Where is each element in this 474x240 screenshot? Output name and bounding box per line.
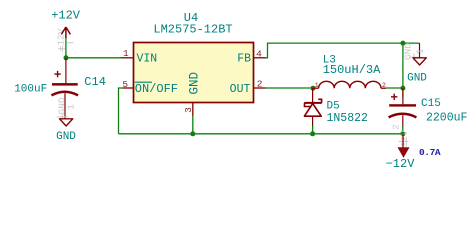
svg-text:0.7A: 0.7A bbox=[419, 147, 441, 158]
svg-text:−12V: −12V bbox=[386, 157, 416, 171]
IC U4 LM2575-12BT bbox=[134, 11, 254, 103]
wire +12V to VIN bbox=[66, 57, 122, 59]
wire pin3 down bbox=[192, 115, 194, 134]
svg-text:5: 5 bbox=[122, 79, 128, 90]
svg-text:C15: C15 bbox=[421, 98, 441, 110]
wire FB up and across top bbox=[266, 43, 420, 58]
node OUT/D5 bbox=[311, 86, 316, 91]
svg-text:3: 3 bbox=[183, 107, 194, 113]
power flag +12V bbox=[51, 9, 81, 58]
svg-text:VIN: VIN bbox=[137, 53, 158, 66]
svg-text:4: 4 bbox=[256, 48, 262, 59]
svg-text:GND: GND bbox=[56, 131, 76, 143]
svg-text:GND: GND bbox=[188, 72, 202, 95]
node top right bbox=[400, 41, 405, 46]
svg-text:1: 1 bbox=[415, 48, 426, 54]
svg-text:+12V: +12V bbox=[56, 28, 67, 51]
node D5/rail bbox=[310, 131, 315, 136]
node pin3/rail bbox=[190, 131, 195, 136]
svg-text:ON/OFF: ON/OFF bbox=[135, 82, 178, 96]
wire L3 to C15 bbox=[386, 87, 403, 89]
wire right vertical top bbox=[402, 43, 404, 97]
svg-text:2200uF: 2200uF bbox=[426, 112, 468, 125]
svg-text:C14: C14 bbox=[84, 75, 106, 89]
svg-text:GND: GND bbox=[407, 73, 427, 85]
svg-text:1: 1 bbox=[123, 48, 129, 59]
svg-text:2: 2 bbox=[391, 124, 402, 130]
pin 2 OUT bbox=[254, 87, 266, 89]
power flag -12V bbox=[386, 124, 441, 171]
svg-text:100uF: 100uF bbox=[14, 83, 47, 95]
wire OUT to L3 bbox=[266, 87, 314, 89]
svg-text:2: 2 bbox=[382, 82, 386, 89]
svg-text:1: 1 bbox=[66, 104, 77, 110]
svg-text:FB: FB bbox=[237, 53, 251, 66]
inductor L3 bbox=[313, 54, 386, 89]
capacitor C15 bbox=[389, 88, 468, 134]
pin 5 ON/OFF bbox=[123, 87, 134, 89]
pin 3 GND bbox=[192, 103, 194, 117]
node C15/rail bbox=[400, 131, 405, 136]
svg-text:D5: D5 bbox=[327, 100, 340, 112]
node junction +12V/C14 bbox=[64, 55, 69, 60]
wire ON/OFF down bbox=[119, 88, 123, 134]
ground GND (left) bbox=[56, 97, 76, 143]
diode D5 1N5822 bbox=[304, 88, 368, 134]
svg-text:LM2575-12BT: LM2575-12BT bbox=[153, 23, 232, 37]
ground GND (top right) bbox=[403, 43, 428, 85]
capacitor C14 bbox=[14, 58, 106, 119]
pin 4 FB bbox=[254, 57, 266, 59]
svg-text:1: 1 bbox=[315, 82, 319, 89]
svg-text:OUT: OUT bbox=[230, 83, 251, 96]
svg-text:1N5822: 1N5822 bbox=[327, 112, 369, 125]
node L3/C15 bbox=[400, 86, 405, 91]
wire bottom rail bbox=[119, 133, 404, 135]
svg-text:150uH/3A: 150uH/3A bbox=[323, 63, 381, 77]
pin 1 VIN bbox=[122, 57, 134, 59]
svg-text:+12V: +12V bbox=[51, 9, 81, 23]
svg-text:2: 2 bbox=[257, 78, 263, 89]
